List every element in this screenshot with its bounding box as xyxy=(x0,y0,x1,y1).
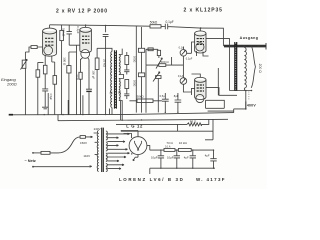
label tube type RV12P2000 xyxy=(56,9,108,15)
svg-text:2 x KL12P35: 2 x KL12P35 xyxy=(184,8,223,14)
wire B+ vertical xyxy=(245,91,247,102)
transformer T2 secondary winding xyxy=(244,48,246,89)
wire rail A xyxy=(11,113,234,115)
svg-text:73 Ω: 73 Ω xyxy=(166,141,173,145)
wire R8 xyxy=(96,48,98,114)
junction dot B+ xyxy=(245,108,247,110)
wire C4 to rail xyxy=(88,92,90,115)
capacitor C8 xyxy=(124,89,129,100)
wire rail B left xyxy=(57,115,59,121)
svg-text:8µF: 8µF xyxy=(174,94,179,98)
svg-text:0,5µF: 0,5µF xyxy=(49,94,52,101)
potentiometer P3 xyxy=(153,72,161,82)
label C13 xyxy=(184,155,189,159)
label 200 ohm output xyxy=(258,64,262,74)
wire rail A end dash xyxy=(9,114,13,116)
resistor R3 50k xyxy=(60,30,64,40)
junction dots top rail xyxy=(85,24,106,26)
meter M2 xyxy=(180,78,187,85)
wire rail B xyxy=(58,119,228,120)
label R11 xyxy=(132,80,136,86)
label R8 25k xyxy=(103,59,107,68)
junction dots T2 bottom xyxy=(245,90,252,92)
svg-text:150V: 150V xyxy=(80,141,87,145)
capacitor C10 8uF xyxy=(175,93,182,112)
wire top cluster xyxy=(146,49,158,65)
label R10 xyxy=(132,56,136,62)
transformer T1 core xyxy=(115,50,117,108)
capacitor C6 top xyxy=(165,24,200,30)
wire output top band xyxy=(224,43,266,50)
transformer T3 sec winding 4 xyxy=(106,164,107,172)
tube V4 KL12P35 lower xyxy=(195,77,206,102)
label Netz xyxy=(25,159,36,163)
svg-text:400V: 400V xyxy=(247,104,256,108)
capacitor C13 4uF xyxy=(190,150,196,168)
transformer T3 sec winding 2 xyxy=(106,142,107,151)
svg-text:10 kΩ: 10 kΩ xyxy=(179,141,188,145)
svg-text:200Ω: 200Ω xyxy=(6,82,17,87)
transformer T3 core xyxy=(102,128,104,172)
wire V4 top lead xyxy=(192,74,201,77)
wire V5 wrap2 xyxy=(124,134,132,139)
wire input vertical xyxy=(24,52,26,60)
label C10 xyxy=(174,94,179,98)
terminal +400V xyxy=(245,101,247,109)
svg-text:10µF: 10µF xyxy=(167,155,174,159)
wire right riser xyxy=(205,119,213,139)
label M1b xyxy=(186,57,193,60)
label 110V xyxy=(83,154,90,158)
wire filter bottom rail xyxy=(150,168,215,174)
wire mains upper 2 xyxy=(50,137,80,153)
label R15 73 xyxy=(166,141,173,145)
label Lorenz model xyxy=(119,177,184,182)
wire R5 to rail xyxy=(54,84,56,115)
label R15 current xyxy=(165,146,171,149)
svg-text:W. 4173F: W. 4173F xyxy=(196,177,226,182)
svg-text:200 Ω: 200 Ω xyxy=(258,64,262,74)
junction dots rails xyxy=(44,112,179,121)
wire R9 to C6 xyxy=(161,25,165,27)
transformer T1 sec winding b xyxy=(119,79,120,101)
wire M2 leads xyxy=(183,84,191,92)
wire T1 primary top xyxy=(97,48,112,51)
wire T2 sec leads xyxy=(243,46,245,90)
junction dot V5 xyxy=(131,153,132,154)
resistor R6 300ohm xyxy=(67,66,71,73)
resistor R5 xyxy=(53,76,57,85)
label R16 10k xyxy=(179,141,188,145)
wire V2 cathode leads xyxy=(81,58,90,60)
label +400V xyxy=(247,104,256,108)
label R14 86 xyxy=(190,120,197,124)
svg-text:240V: 240V xyxy=(94,127,101,131)
svg-text:Ü1: Ü1 xyxy=(118,90,122,94)
capacitor C14 4uF xyxy=(210,150,216,168)
capacitor input coupling xyxy=(31,46,37,49)
wire coupling to V1 grid xyxy=(25,47,42,52)
fuse F1 xyxy=(41,151,50,154)
capacitor C12 10uF xyxy=(174,150,180,168)
wire R2 to rail xyxy=(37,77,39,115)
wire R18 down xyxy=(158,56,160,58)
wire P1 to ground rail xyxy=(24,68,26,114)
label R3 50k xyxy=(61,28,65,37)
wire V3 anode to OT xyxy=(206,39,230,44)
wire P3 down xyxy=(157,79,159,113)
wire V3 top lead xyxy=(199,28,201,31)
wire rail to right corner xyxy=(201,28,224,46)
ground sym C3 xyxy=(42,107,48,109)
wire V4 anode to OT xyxy=(206,88,237,96)
label C11 xyxy=(151,155,158,159)
junction dots filter xyxy=(160,149,214,150)
label C3 value xyxy=(49,94,52,101)
svg-text:500Ω: 500Ω xyxy=(132,80,136,86)
wire V1 anode to top rail xyxy=(49,25,51,28)
label 150V xyxy=(80,141,87,145)
transformer T2 core xyxy=(235,42,237,91)
svg-text:0,1µF: 0,1µF xyxy=(186,57,193,60)
potentiometer P2 500ohm xyxy=(156,58,166,69)
tube V3 KL12P35 upper xyxy=(195,31,206,53)
wire P2 xyxy=(146,57,183,113)
transformer T3 sec winding 1 xyxy=(106,131,107,140)
svg-text:A1: A1 xyxy=(110,90,114,94)
meter M1 xyxy=(180,50,187,57)
wire node column xyxy=(38,62,44,69)
tube V2 RV12P2000 xyxy=(80,27,92,58)
svg-text:LORENZ LV6/ B 3D: LORENZ LV6/ B 3D xyxy=(119,177,184,182)
wire M1 leads xyxy=(183,47,191,78)
label RC top 50k 0.1uF xyxy=(150,20,174,24)
svg-text:50kΩ: 50kΩ xyxy=(150,20,158,24)
wire V4 bottom wires xyxy=(206,100,225,108)
wire R14 to rail B xyxy=(202,119,209,124)
svg-text:0,1µF: 0,1µF xyxy=(166,20,174,24)
brace output xyxy=(251,46,255,88)
resistor R10 xyxy=(125,56,129,65)
svg-text:0,1A: 0,1A xyxy=(178,74,184,78)
wire T1 primary bottom xyxy=(111,108,113,115)
label C14 xyxy=(205,154,210,158)
tube V1 RV12P2000 xyxy=(43,28,57,56)
dashed vertical xyxy=(248,92,250,101)
capacitor C2 0.1uF xyxy=(67,25,80,45)
resistor R16 10k xyxy=(178,149,191,152)
wire selector taps xyxy=(94,133,97,155)
svg-text:Ausgang: Ausgang xyxy=(240,36,259,40)
resistor R15 73ohm xyxy=(164,149,175,152)
wire V2 grid xyxy=(69,45,77,115)
wire mid drop1 xyxy=(126,52,128,56)
svg-text:L G 12: L G 12 xyxy=(126,123,143,128)
svg-text:10µF: 10µF xyxy=(151,155,158,159)
resistor R9 50k top xyxy=(150,25,161,28)
resistor R14 zigzag 86ohm xyxy=(187,123,202,126)
junction dot output grid xyxy=(200,27,202,29)
wire B+ horizontals xyxy=(208,109,246,113)
label M2 xyxy=(178,74,184,78)
capacitor C9 xyxy=(162,93,169,112)
wire left outer vertical xyxy=(217,68,219,95)
wire rail C xyxy=(116,123,187,125)
label R13 50k xyxy=(137,95,145,99)
svg-text:0,5µ: 0,5µ xyxy=(160,94,166,98)
label drawing number xyxy=(196,177,226,182)
mains terminal upper xyxy=(32,152,34,154)
label R7 1k xyxy=(75,74,79,80)
wire filter top line xyxy=(150,149,214,151)
capacitor C3 cathode xyxy=(42,74,48,107)
wire V2 top xyxy=(85,25,87,27)
resistor R7 1k xyxy=(79,72,82,79)
resistor R18 xyxy=(157,50,160,55)
wire drop C to D xyxy=(177,124,179,131)
transformer T1 primary winding xyxy=(111,52,112,108)
svg-text:~ Netz: ~ Netz xyxy=(25,159,36,163)
resistor R8 25k xyxy=(95,58,99,70)
svg-text:2 x RV 12 P 2000: 2 x RV 12 P 2000 xyxy=(56,9,108,15)
wire T2 bottom line xyxy=(230,90,252,92)
wire R6 to rail xyxy=(68,52,70,115)
wire V5 top xyxy=(121,131,138,137)
label R6 300 xyxy=(62,57,66,66)
input label Eingang 200 ohm xyxy=(1,77,17,87)
wire V4 left lead xyxy=(192,88,195,95)
svg-text:110V: 110V xyxy=(83,154,90,158)
svg-text:25 kΩ: 25 kΩ xyxy=(103,59,107,68)
label C12 xyxy=(167,155,174,159)
wire R3 xyxy=(61,25,63,115)
wire filler verticals xyxy=(48,93,120,120)
wire mains upper xyxy=(33,152,41,154)
tube V5 LG12 rectifier xyxy=(129,137,147,155)
mains terminal lower xyxy=(32,166,34,168)
resistor R12 xyxy=(138,48,144,52)
label C2 xyxy=(76,26,80,33)
svg-text:500Ω: 500Ω xyxy=(132,56,136,62)
label M1 xyxy=(179,45,185,49)
svg-text:300 Ω: 300 Ω xyxy=(62,57,66,66)
svg-text:86 Ω: 86 Ω xyxy=(190,120,197,124)
transformer T1 sec winding a xyxy=(119,55,120,75)
svg-text:0,1A: 0,1A xyxy=(179,45,185,49)
resistor R11 xyxy=(125,80,129,89)
wire R12 vertical xyxy=(141,27,143,113)
wire T1 sec leads xyxy=(119,49,124,121)
label T1 windings xyxy=(110,90,122,94)
wire R7 xyxy=(80,59,82,115)
wire mains lower xyxy=(33,166,92,168)
svg-text:4µF: 4µF xyxy=(205,154,210,158)
resistor R17 xyxy=(148,48,153,51)
capacitor C5 under rail xyxy=(103,25,109,114)
label 240V xyxy=(94,127,101,131)
transformer T3 sec winding 3 xyxy=(106,153,107,162)
capacitor C7 xyxy=(124,65,129,75)
wire V5 right xyxy=(147,146,150,151)
junction dots bottom rail xyxy=(160,168,214,169)
resistor R12b xyxy=(138,73,144,77)
label Ausgang xyxy=(240,36,259,40)
wire rail D xyxy=(121,130,213,132)
wire V5 bottom xyxy=(133,155,138,161)
resistor R2 xyxy=(36,70,40,77)
label LG12 xyxy=(126,123,143,128)
capacitor C4 100uF xyxy=(86,60,92,93)
wires T3 taps xyxy=(107,133,129,169)
svg-text:500 Ω: 500 Ω xyxy=(161,60,170,64)
transformer T2 primary line xyxy=(229,44,231,91)
wire selector arrow xyxy=(85,136,92,138)
output terminals dots xyxy=(231,45,260,47)
label C4 100uF xyxy=(92,70,96,79)
svg-text:50kΩ: 50kΩ xyxy=(137,95,145,99)
wire long vertical x136 xyxy=(135,26,137,113)
label tube type KL12P35 xyxy=(184,8,223,14)
resistor R13 50k xyxy=(137,99,153,103)
svg-text:100 µF: 100 µF xyxy=(92,70,96,79)
wire V1 cathode leads xyxy=(45,55,55,76)
wire V3 left leads xyxy=(192,42,209,56)
transformer T3 primary winding xyxy=(97,131,99,172)
selector box xyxy=(80,136,85,139)
capacitor C11 10uF xyxy=(158,150,164,168)
label C9 xyxy=(160,94,166,98)
wire top rail anode xyxy=(50,25,150,26)
resistor R4 xyxy=(43,65,47,74)
label P2 500 xyxy=(161,60,170,64)
svg-text:4µF: 4µF xyxy=(184,155,189,159)
potentiometer P1 xyxy=(21,59,28,69)
wire R13 xyxy=(129,100,162,102)
